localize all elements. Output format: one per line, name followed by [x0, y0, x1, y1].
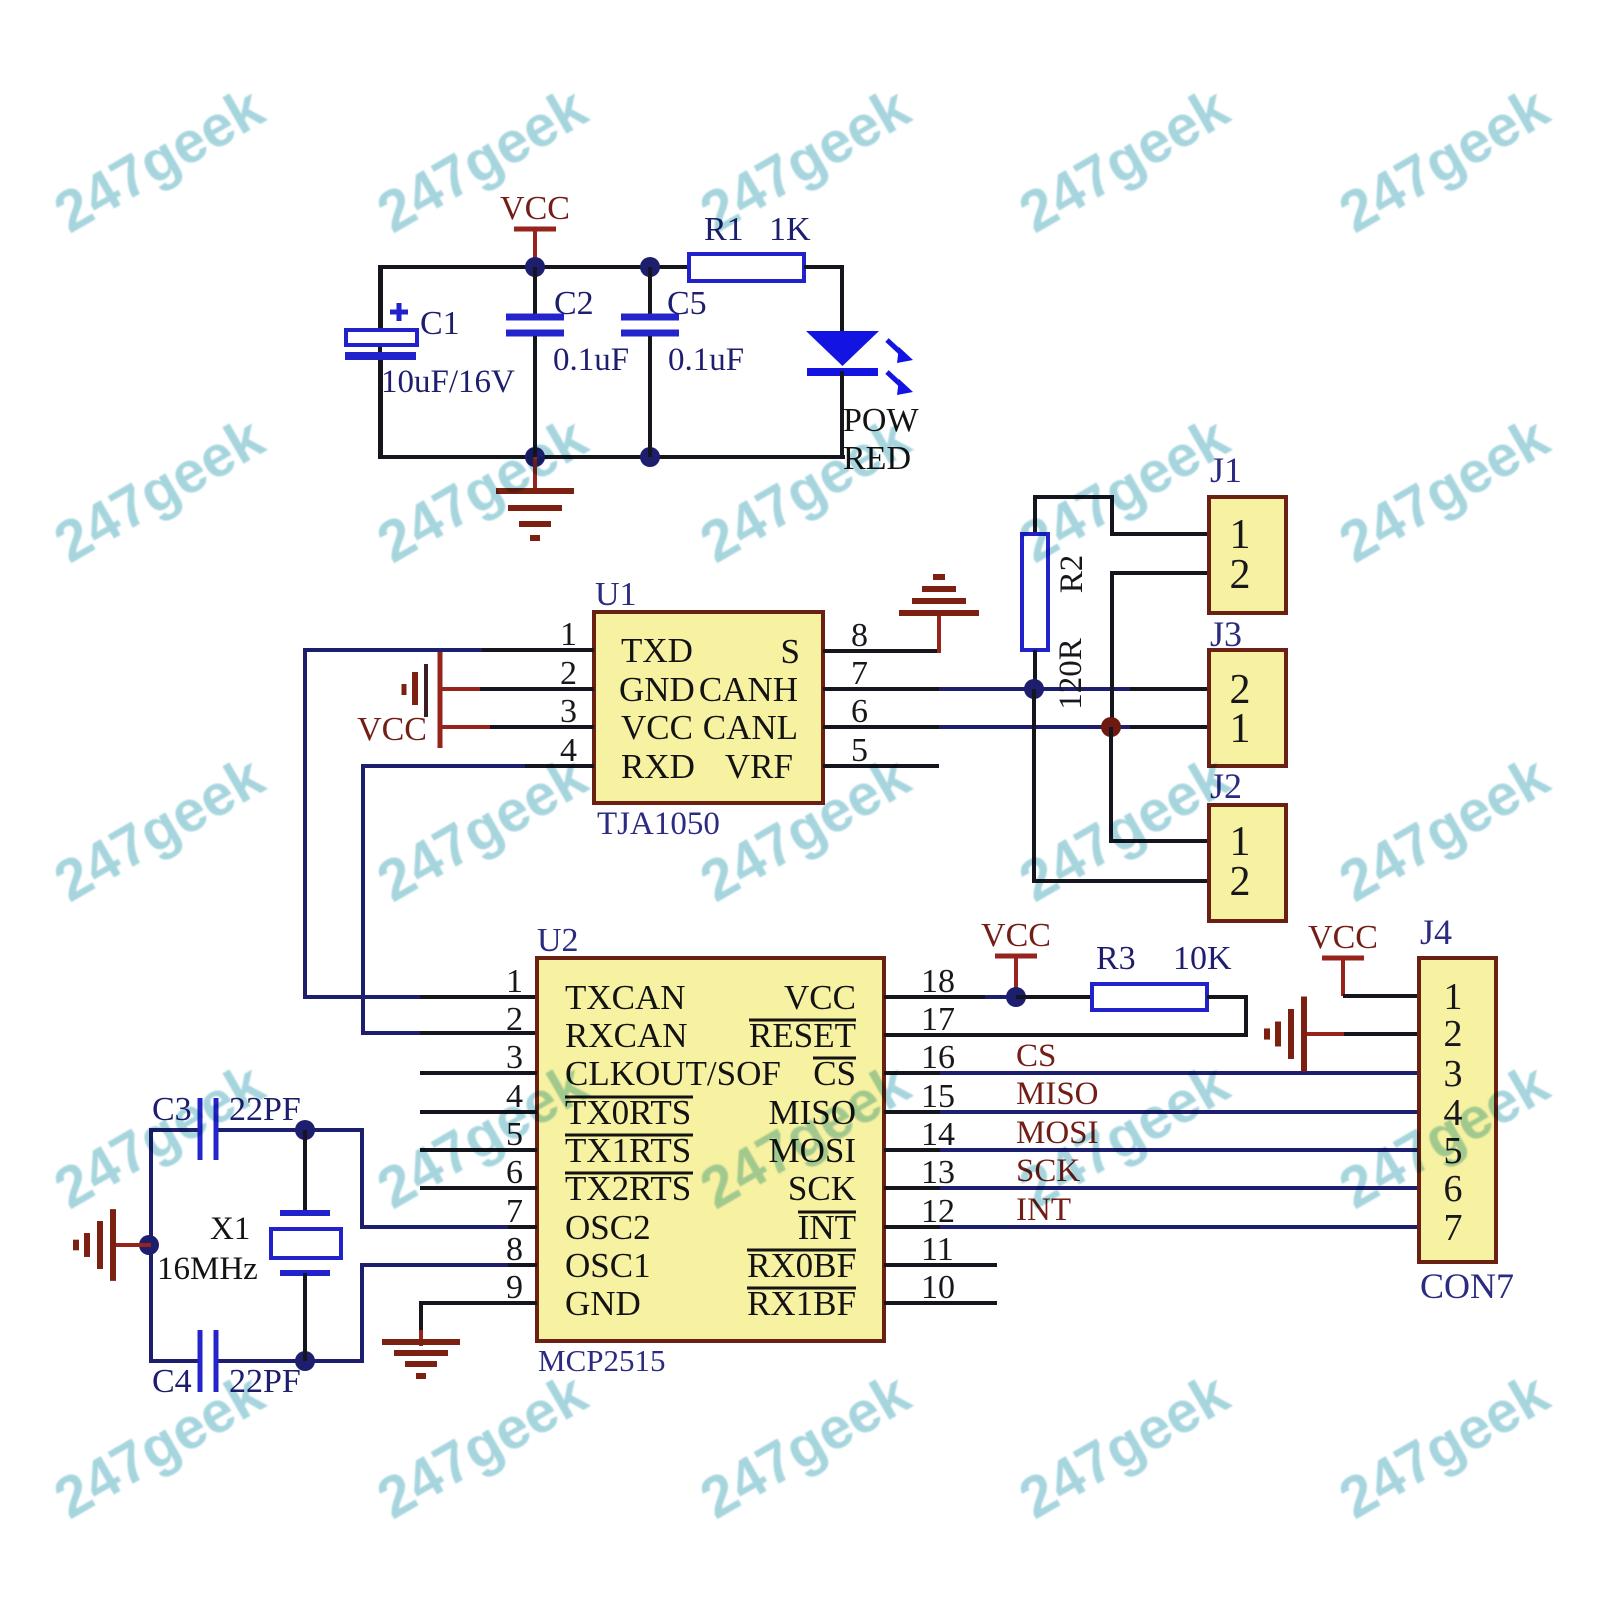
U2 pin name CLKOUT/SOF	[565, 1054, 781, 1093]
svg-text:247geek: 247geek	[690, 404, 921, 575]
junction dot C5-R1 branch	[640, 257, 660, 277]
wire U2.13 SCK to J4.6	[884, 1186, 1419, 1190]
J4 pin number 7	[1444, 1207, 1463, 1249]
U1 pin name RXD	[621, 747, 695, 786]
junction dot crystal top	[295, 1120, 315, 1140]
power symbol VCC (top)	[500, 190, 570, 267]
svg-text:7: 7	[506, 1193, 523, 1230]
wire U1.2 GND stub	[442, 687, 594, 691]
svg-text:INT: INT	[798, 1208, 856, 1247]
label R3	[1096, 940, 1136, 977]
svg-text:6: 6	[506, 1154, 523, 1191]
wire U2.16 CS to J4.3	[884, 1071, 1419, 1075]
label TJA1050	[597, 806, 720, 842]
wire CANL drop to J2.1	[1111, 727, 1209, 843]
U2 pin number 5	[506, 1116, 523, 1153]
U2 pin name CS	[813, 1054, 856, 1093]
U2 pin number 3	[506, 1039, 523, 1076]
label X1	[210, 1211, 250, 1247]
U2 pin name TXCAN	[565, 978, 686, 1017]
label 120R (rotated)	[1053, 638, 1089, 710]
connector J2 body	[1209, 805, 1286, 921]
junction dot CANL (red)	[1101, 717, 1121, 737]
wire R1 to LED	[804, 265, 842, 332]
svg-text:R3: R3	[1096, 940, 1136, 977]
ground (J4 pin2, rotated)	[1267, 996, 1346, 1071]
label CS (net)	[1016, 1038, 1056, 1074]
J2 pin number 2	[1230, 859, 1251, 905]
svg-text:RX1BF: RX1BF	[747, 1284, 856, 1323]
U2 pin name RESET	[749, 1016, 856, 1055]
U1 pin name CANH	[699, 670, 798, 709]
svg-text:10uF/16V: 10uF/16V	[381, 364, 515, 400]
U2 pin number 11	[921, 1231, 954, 1268]
J1 pin number 1	[1230, 512, 1251, 558]
wire top power rail	[380, 265, 689, 269]
capacitor C4	[200, 1330, 216, 1392]
wire U2.6 TX2RTS stub	[420, 1186, 537, 1190]
U2 pin name VCC	[784, 978, 856, 1017]
wire U2.12 INT to J4.7	[884, 1225, 1419, 1229]
svg-text:C2: C2	[554, 285, 594, 322]
U2 pin name OSC1	[565, 1246, 651, 1285]
label R3 value 10K	[1173, 940, 1232, 977]
svg-text:CON7: CON7	[1420, 1266, 1514, 1306]
svg-text:VCC: VCC	[357, 711, 427, 748]
svg-text:247geek: 247geek	[44, 743, 275, 914]
U2 pin number 1	[506, 963, 523, 1000]
svg-text:RXD: RXD	[621, 747, 695, 786]
label MCP2515	[538, 1343, 665, 1378]
label C3 value 22PF	[229, 1091, 301, 1128]
wire U2.5 TX1RTS stub	[420, 1148, 537, 1152]
U1 pin number 7	[851, 655, 868, 692]
wire OSC1 net	[305, 1263, 537, 1363]
power symbol VCC (U1 pin3)	[357, 711, 594, 748]
svg-text:11: 11	[921, 1231, 954, 1268]
IC U2 body	[537, 958, 884, 1341]
svg-text:C1: C1	[420, 305, 460, 342]
svg-text:VCC: VCC	[1308, 919, 1378, 956]
wire U2.10 RX1BF stub	[884, 1301, 997, 1305]
U2 pin number 8	[506, 1231, 523, 1268]
label R2 (rotated)	[1054, 555, 1090, 594]
wire U2.11 RX0BF stub	[884, 1263, 997, 1267]
svg-text:247geek: 247geek	[1329, 743, 1560, 914]
U2 pin name TX1RTS	[565, 1131, 693, 1170]
U1 pin name VCC	[621, 708, 693, 747]
J1 pin number 2	[1230, 552, 1251, 598]
wire R2 top link to J1.1	[1033, 497, 1209, 536]
svg-text:8: 8	[506, 1231, 523, 1268]
label 16MHz	[157, 1251, 258, 1287]
svg-text:1: 1	[1444, 976, 1463, 1018]
watermark layer 247geek	[0, 0, 1, 1]
svg-text:10: 10	[921, 1269, 955, 1306]
svg-text:247geek: 247geek	[1009, 74, 1240, 245]
svg-text:0.1uF: 0.1uF	[668, 342, 744, 378]
svg-text:VCC: VCC	[784, 978, 856, 1017]
svg-text:GND: GND	[619, 670, 695, 709]
svg-text:0.1uF: 0.1uF	[553, 342, 629, 378]
svg-text:12: 12	[921, 1193, 955, 1230]
label POW	[843, 402, 919, 439]
connector J4 body	[1419, 958, 1496, 1262]
U2 pin number 12	[921, 1193, 955, 1230]
svg-text:3: 3	[506, 1039, 523, 1076]
U1 pin number 3	[560, 693, 577, 730]
svg-text:VCC: VCC	[500, 190, 570, 227]
wire R3 to RESET	[1207, 995, 1246, 1035]
wire TXD net (U1.1 to U2.1 TXCAN)	[305, 648, 594, 999]
J2 pin number 1	[1230, 819, 1251, 865]
U2 pin number 4	[506, 1078, 523, 1115]
svg-text:S: S	[781, 632, 800, 671]
svg-text:C5: C5	[667, 285, 707, 322]
label U1	[595, 576, 637, 613]
U2 pin name TX2RTS	[565, 1169, 693, 1208]
svg-text:16: 16	[921, 1039, 955, 1076]
svg-text:2: 2	[1230, 859, 1251, 905]
U2 pin number 9	[506, 1269, 523, 1306]
U2 pin number 7	[506, 1193, 523, 1230]
label C1	[420, 305, 460, 342]
label J3	[1210, 614, 1242, 654]
LED D1 (POW RED)	[806, 331, 879, 459]
J3 pin number 2	[1230, 667, 1251, 713]
label C2	[554, 285, 594, 322]
label J4	[1420, 912, 1452, 952]
U2 pin number 13	[921, 1154, 955, 1191]
U1 pin number 6	[851, 693, 868, 730]
wire R2 bottom to CANH	[1033, 650, 1037, 691]
wire VCC dot to R3	[1016, 995, 1092, 999]
svg-text:OSC1: OSC1	[565, 1246, 651, 1285]
svg-text:1: 1	[1230, 706, 1251, 752]
capacitor C1 (electrolytic)	[345, 267, 417, 457]
U1 pin name CANL	[703, 708, 798, 747]
U2 pin number 15	[921, 1078, 955, 1115]
junction dot VCC-R3	[1006, 987, 1026, 1007]
ground (U1 pin8, inverted)	[899, 577, 979, 613]
svg-text:247geek: 247geek	[1329, 74, 1560, 245]
wire ground to J4.2	[1344, 1032, 1419, 1036]
resistor R3	[1092, 984, 1207, 1010]
svg-text:247geek: 247geek	[1329, 1360, 1560, 1531]
svg-text:1K: 1K	[769, 211, 811, 248]
svg-text:247geek: 247geek	[1329, 404, 1560, 575]
svg-text:2: 2	[1230, 552, 1251, 598]
wire U2.15 MISO to J4.4	[884, 1110, 1419, 1114]
svg-text:MISO: MISO	[1016, 1076, 1099, 1112]
svg-text:J4: J4	[1420, 912, 1452, 952]
label C4	[152, 1363, 192, 1400]
label MOSI (net)	[1016, 1115, 1099, 1151]
wire CANL net	[823, 725, 1209, 729]
svg-text:RX0BF: RX0BF	[747, 1246, 856, 1285]
wire crystal left loop	[149, 1128, 307, 1363]
svg-text:247geek: 247geek	[690, 1360, 921, 1531]
resistor R1	[689, 254, 804, 281]
resistor R2	[1022, 534, 1048, 650]
svg-text:6: 6	[851, 693, 868, 730]
svg-text:TXD: TXD	[621, 631, 693, 670]
svg-text:2: 2	[1444, 1013, 1463, 1055]
svg-text:TJA1050: TJA1050	[597, 806, 720, 842]
power symbol VCC (U2.18)	[981, 917, 1051, 997]
label R1 1K	[704, 211, 811, 248]
U2 pin name RXCAN	[565, 1016, 688, 1055]
svg-text:247geek: 247geek	[367, 1360, 598, 1531]
svg-text:OSC2: OSC2	[565, 1208, 651, 1247]
svg-text:15: 15	[921, 1078, 955, 1115]
svg-text:247geek: 247geek	[44, 404, 275, 575]
svg-text:VCC: VCC	[621, 708, 693, 747]
U2 pin number 6	[506, 1154, 523, 1191]
wire VCC to J4.1	[1343, 994, 1419, 998]
crystal X1	[271, 1130, 341, 1361]
svg-text:U1: U1	[595, 576, 637, 613]
U2 pin number 17	[921, 1001, 955, 1038]
svg-text:3: 3	[560, 693, 577, 730]
connector J1 body	[1209, 497, 1286, 613]
svg-text:X1: X1	[210, 1211, 250, 1247]
svg-text:VRF: VRF	[725, 747, 793, 786]
J4 pin number 5	[1444, 1130, 1463, 1172]
U1 pin number 8	[851, 617, 868, 654]
svg-text:TX1RTS: TX1RTS	[565, 1131, 691, 1170]
ground (crystal, rotated)	[76, 1209, 151, 1281]
svg-text:247geek: 247geek	[44, 74, 275, 245]
capacitor C2	[506, 267, 564, 457]
U1 pin name TXD	[621, 631, 693, 670]
U2 pin number 16	[921, 1039, 955, 1076]
svg-text:10K: 10K	[1173, 940, 1232, 977]
J4 pin number 4	[1444, 1092, 1463, 1134]
svg-text:TX2RTS: TX2RTS	[565, 1169, 691, 1208]
svg-text:RESET: RESET	[749, 1016, 856, 1055]
wire J1.2 drop to CANL	[1112, 571, 1209, 727]
U2 pin name MISO	[768, 1093, 856, 1132]
junction dot C5-bottom	[640, 447, 660, 467]
wire U2.9 GND to ground	[421, 1301, 537, 1346]
J4 pin number 6	[1444, 1168, 1463, 1210]
label J2	[1210, 766, 1242, 806]
svg-text:120R: 120R	[1053, 638, 1089, 710]
U1 pin name VRF	[725, 747, 793, 786]
svg-text:247geek: 247geek	[367, 743, 598, 914]
wire U2.3 CLKOUT stub	[420, 1071, 537, 1075]
U2 pin number 2	[506, 1001, 523, 1038]
svg-text:CANL: CANL	[703, 708, 798, 747]
wire CANH drop to J2.2	[1034, 689, 1209, 883]
svg-text:2: 2	[506, 1001, 523, 1038]
label SCK (net)	[1016, 1153, 1080, 1189]
capacitor C3	[200, 1098, 216, 1160]
svg-text:9: 9	[506, 1269, 523, 1306]
U2 pin name INT	[798, 1208, 856, 1247]
label U2	[537, 922, 579, 959]
label C4 value 22PF	[229, 1363, 301, 1400]
label C1 value 10uF/16V	[381, 364, 515, 400]
IC U1 body	[594, 612, 823, 803]
svg-text:16MHz: 16MHz	[157, 1251, 258, 1287]
svg-text:2: 2	[560, 655, 577, 692]
U1 pin number 2	[560, 655, 577, 692]
U2 pin name RX0BF	[747, 1246, 856, 1285]
ground (power rail)	[496, 457, 574, 538]
svg-text:18: 18	[921, 963, 955, 1000]
connector J3 body	[1209, 650, 1286, 766]
wire CANH net	[823, 687, 1209, 691]
U2 pin name SCK	[788, 1169, 856, 1208]
label C5 value 0.1uF	[668, 342, 744, 378]
svg-text:VCC: VCC	[981, 917, 1051, 954]
svg-text:GND: GND	[565, 1284, 641, 1323]
svg-text:TXCAN: TXCAN	[565, 978, 686, 1017]
svg-text:U2: U2	[537, 922, 579, 959]
svg-text:14: 14	[921, 1116, 955, 1153]
svg-text:247geek: 247geek	[1009, 404, 1240, 575]
U2 pin number 18	[921, 963, 955, 1000]
U1 pin name GND	[619, 670, 695, 709]
label CON7	[1420, 1266, 1514, 1306]
U2 pin name MOSI	[768, 1131, 856, 1170]
U1 pin number 4	[560, 732, 577, 769]
svg-text:247geek: 247geek	[1009, 1360, 1240, 1531]
U2 pin name OSC2	[565, 1208, 651, 1247]
wire OSC2 net	[305, 1128, 537, 1229]
U1 pin number 1	[560, 616, 577, 653]
wire left power branch	[378, 265, 382, 459]
svg-text:7: 7	[1444, 1207, 1463, 1249]
U2 pin number 10	[921, 1269, 955, 1306]
J4 pin number 2	[1444, 1013, 1463, 1055]
label MISO (net)	[1016, 1076, 1099, 1112]
ground (U2 pin9)	[382, 1342, 460, 1376]
svg-text:1: 1	[506, 963, 523, 1000]
wire U1.8 S to ground	[823, 615, 940, 653]
U2 pin name GND	[565, 1284, 641, 1323]
wire RXD net (U1.4 to U2.2 RXCAN)	[363, 764, 594, 1035]
svg-text:6: 6	[1444, 1168, 1463, 1210]
svg-text:247geek: 247geek	[1009, 743, 1240, 914]
svg-text:CS: CS	[1016, 1038, 1056, 1074]
junction dot C2-ground	[525, 447, 545, 467]
J3 pin number 1	[1230, 706, 1251, 752]
junction dot crystal bottom	[295, 1351, 315, 1371]
junction dot CANH-R2	[1024, 679, 1044, 699]
wire U2.18 VCC	[884, 995, 1016, 999]
svg-text:CLKOUT/SOF: CLKOUT/SOF	[565, 1054, 781, 1093]
label C5	[667, 285, 707, 322]
svg-text:17: 17	[921, 1001, 955, 1038]
U2 pin number 14	[921, 1116, 955, 1153]
wire U2.4 TX0RTS stub	[420, 1110, 537, 1114]
svg-text:RXCAN: RXCAN	[565, 1016, 688, 1055]
label C3	[152, 1091, 192, 1128]
svg-text:J3: J3	[1210, 614, 1242, 654]
junction dot VCC-rail	[525, 257, 545, 277]
wire bottom power rail	[380, 455, 845, 459]
ground (U1 pin2, rotated)	[404, 652, 440, 748]
U1 pin name S	[781, 632, 800, 671]
wire U2.14 MOSI to J4.5	[884, 1148, 1419, 1152]
svg-text:1: 1	[560, 616, 577, 653]
U2 pin name RX1BF	[747, 1284, 856, 1323]
U1 pin number 5	[851, 732, 868, 769]
J4 pin number 3	[1444, 1053, 1463, 1095]
capacitor C5	[621, 267, 679, 457]
label RED	[843, 440, 911, 477]
svg-text:247geek: 247geek	[44, 1050, 275, 1221]
J4 pin number 1	[1444, 976, 1463, 1018]
wire U2.17 RESET	[884, 1033, 1248, 1037]
label C2 value 0.1uF	[553, 342, 629, 378]
svg-text:7: 7	[851, 655, 868, 692]
power symbol VCC (J4.1)	[1308, 919, 1378, 996]
LED light arrows	[887, 340, 913, 395]
label INT (net)	[1016, 1192, 1071, 1228]
junction dot crystal ground	[139, 1235, 159, 1255]
label J1	[1210, 450, 1242, 490]
wire U1.5 VRF stub	[823, 764, 939, 768]
svg-text:CANH: CANH	[699, 670, 798, 709]
svg-text:8: 8	[851, 617, 868, 654]
U2 pin name TX0RTS	[565, 1093, 693, 1132]
svg-text:13: 13	[921, 1154, 955, 1191]
